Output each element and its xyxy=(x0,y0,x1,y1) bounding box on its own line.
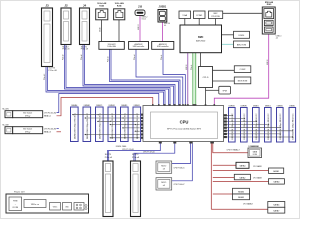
svg-text:DDR4 DIMM 288pin REG ECC: DDR4 DIMM 288pin REG ECC xyxy=(280,113,282,140)
svg-text:DDR4 DIMM 288pin REG ECC: DDR4 DIMM 288pin REG ECC xyxy=(99,112,101,139)
svg-text:BMC: BMC xyxy=(198,36,204,39)
svg-text:VCORE: VCORE xyxy=(12,207,18,209)
svg-text:CPU P3 08-15: CPU P3 08-15 xyxy=(174,167,185,169)
svg-text:CPU P2 (32-35): CPU P2 (32-35) xyxy=(44,113,56,115)
svg-text:M Key: M Key xyxy=(25,131,30,133)
svg-text:J18: J18 xyxy=(138,5,143,8)
svg-text:M Key: M Key xyxy=(25,115,30,117)
svg-text:PCIe x8: PCIe x8 xyxy=(81,49,89,51)
svg-text:USB 2.0: USB 2.0 xyxy=(186,64,188,70)
svg-text:DIMMF1: DIMMF1 xyxy=(134,105,140,107)
svg-text:DIMMH1: DIMMH1 xyxy=(241,105,247,107)
svg-text:DOM: DOM xyxy=(253,154,258,156)
svg-text:DDR4: DDR4 xyxy=(239,35,246,37)
svg-text:M.2 Socket: M.2 Socket xyxy=(23,128,32,131)
svg-text:J4: J4 xyxy=(83,4,87,8)
svg-text:CPU P2 SATA0-7: CPU P2 SATA0-7 xyxy=(227,148,240,151)
svg-text:M.2 Socket: M.2 Socket xyxy=(23,112,32,115)
svg-text:SATA: SATA xyxy=(253,151,258,154)
svg-text:CPU: CPU xyxy=(180,120,189,125)
svg-text:DDR4 DIMM 288pin REG ECC: DDR4 DIMM 288pin REG ECC xyxy=(244,113,246,140)
svg-text:J2: J2 xyxy=(64,4,68,8)
svg-text:CPU P1 15-08: CPU P1 15-08 xyxy=(122,149,134,151)
svg-text:VGA: VGA xyxy=(182,14,187,17)
svg-text:AST2500: AST2500 xyxy=(196,39,206,42)
svg-text:4-5: 4-5 xyxy=(276,37,278,39)
svg-text:COM1: COM1 xyxy=(196,15,203,17)
svg-text:MCIO: MCIO xyxy=(161,182,166,184)
svg-text:PWM: PWM xyxy=(13,201,18,203)
svg-text:PCIe x1: PCIe x1 xyxy=(191,64,193,70)
svg-text:RJ45: RJ45 xyxy=(117,5,122,8)
svg-text:TPM: TPM xyxy=(222,90,227,92)
svg-text:BIOS ROM: BIOS ROM xyxy=(238,81,248,83)
svg-text:10Gb LAN: 10Gb LAN xyxy=(107,45,116,48)
svg-text:DIMMD1: DIMMD1 xyxy=(109,105,115,107)
svg-text:PCIe x8: PCIe x8 xyxy=(62,49,70,51)
svg-text:PCIe x8: PCIe x8 xyxy=(105,157,113,159)
svg-text:SATA3: SATA3 xyxy=(273,181,280,184)
svg-text:SATA2: SATA2 xyxy=(239,176,246,179)
svg-text:J3: J3 xyxy=(45,4,49,8)
svg-text:DDR4 DIMM 288pin REG ECC: DDR4 DIMM 288pin REG ECC xyxy=(293,113,295,140)
svg-text:PCIe x4: PCIe x4 xyxy=(134,54,136,60)
svg-text:EPYC Processor (4094) Socket S: EPYC Processor (4094) Socket SP3 xyxy=(167,127,201,130)
svg-text:SATA0: SATA0 xyxy=(239,164,246,167)
svg-text:CPU P3 00-07: CPU P3 00-07 xyxy=(174,184,185,186)
svg-text:DIMMB1: DIMMB1 xyxy=(84,105,90,107)
svg-text:DDR4 DIMM 288pin REG ECC: DDR4 DIMM 288pin REG ECC xyxy=(268,113,270,140)
svg-text:PCIe x8: PCIe x8 xyxy=(81,54,83,60)
svg-text:DIMMG1: DIMMG1 xyxy=(229,105,235,107)
svg-text:DDR4 DIMM 288pin REG ECC: DDR4 DIMM 288pin REG ECC xyxy=(256,113,258,140)
svg-text:PCIe x16: PCIe x16 xyxy=(44,74,46,80)
svg-text:USB controller: USB controller xyxy=(157,45,169,48)
svg-text:DIMML1: DIMML1 xyxy=(289,105,295,107)
svg-text:SATA7: SATA7 xyxy=(273,210,280,213)
svg-text:JUSB1: JUSB1 xyxy=(159,6,167,9)
svg-text:SATA 2-3: SATA 2-3 xyxy=(44,131,51,134)
svg-text:DDR4 DIMM 288pin REG ECC: DDR4 DIMM 288pin REG ECC xyxy=(74,112,76,139)
svg-text:SATA6: SATA6 xyxy=(273,204,280,207)
svg-text:USB 2.0: USB 2.0 xyxy=(267,59,269,65)
svg-text:USB 3.0: USB 3.0 xyxy=(164,23,170,25)
svg-text:PCIe x1: PCIe x1 xyxy=(161,54,163,60)
svg-text:RJ45: RJ45 xyxy=(267,3,272,6)
svg-text:SATA1: SATA1 xyxy=(273,170,280,173)
svg-text:DIMME1: DIMME1 xyxy=(121,105,127,107)
svg-text:DDR4 DIMM 288pin REG ECC: DDR4 DIMM 288pin REG ECC xyxy=(124,112,126,139)
svg-text:USB 3.2: USB 3.2 xyxy=(142,17,148,19)
svg-text:SATA5: SATA5 xyxy=(238,196,245,199)
svg-text:0-1: 0-1 xyxy=(164,25,166,27)
svg-text:SATA4: SATA4 xyxy=(238,190,245,193)
svg-text:USB controller: USB controller xyxy=(133,45,145,48)
svg-text:DDR4 2666: DDR4 2666 xyxy=(116,146,127,148)
svg-text:CPU P2 (36-39): CPU P2 (36-39) xyxy=(44,129,56,131)
svg-text:DIMMI1: DIMMI1 xyxy=(253,105,259,107)
svg-text:DIMMK1: DIMMK1 xyxy=(277,105,283,107)
svg-text:x8: x8 xyxy=(163,185,165,187)
svg-text:PCIe x16: PCIe x16 xyxy=(49,70,58,72)
svg-text:DDR4 DIMM 288pin REG ECC: DDR4 DIMM 288pin REG ECC xyxy=(112,112,114,139)
svg-text:Power 12V: Power 12V xyxy=(14,191,25,194)
svg-text:DIMMJ1: DIMMJ1 xyxy=(265,105,271,107)
svg-text:PCIe x8: PCIe x8 xyxy=(63,54,65,60)
svg-text:DDR4 DIMM 288pin REG ECC: DDR4 DIMM 288pin REG ECC xyxy=(137,112,139,139)
svg-text:x8: x8 xyxy=(163,168,165,170)
svg-text:PCIe x4: PCIe x4 xyxy=(108,56,110,62)
svg-text:USB 2.0: USB 2.0 xyxy=(276,35,282,37)
svg-text:DDR4 DIMM 288pin REG ECC: DDR4 DIMM 288pin REG ECC xyxy=(232,113,234,140)
svg-text:CPU P1 07-00: CPU P1 07-00 xyxy=(143,152,155,154)
svg-text:COM2: COM2 xyxy=(240,69,247,71)
svg-text:G 2x2: G 2x2 xyxy=(142,19,146,21)
svg-text:MCIO: MCIO xyxy=(161,165,166,167)
svg-text:DDR4 DIMM 288pin REG ECC: DDR4 DIMM 288pin REG ECC xyxy=(87,112,89,139)
svg-text:USB 3.2: USB 3.2 xyxy=(138,24,140,30)
svg-text:BMC ROM: BMC ROM xyxy=(237,44,247,46)
svg-text:10GbE: 10GbE xyxy=(100,27,102,32)
svg-text:VRM ● ● ●: VRM ● ● ● xyxy=(31,204,39,206)
svg-text:DIMMC1: DIMMC1 xyxy=(96,105,102,107)
svg-text:RJ45: RJ45 xyxy=(99,5,104,8)
svg-text:CPLD: CPLD xyxy=(203,77,209,79)
svg-text:RTL8211E: RTL8211E xyxy=(211,16,220,18)
svg-text:PCIe x8: PCIe x8 xyxy=(132,157,140,159)
svg-text:SATA 0-1: SATA 0-1 xyxy=(44,115,51,118)
